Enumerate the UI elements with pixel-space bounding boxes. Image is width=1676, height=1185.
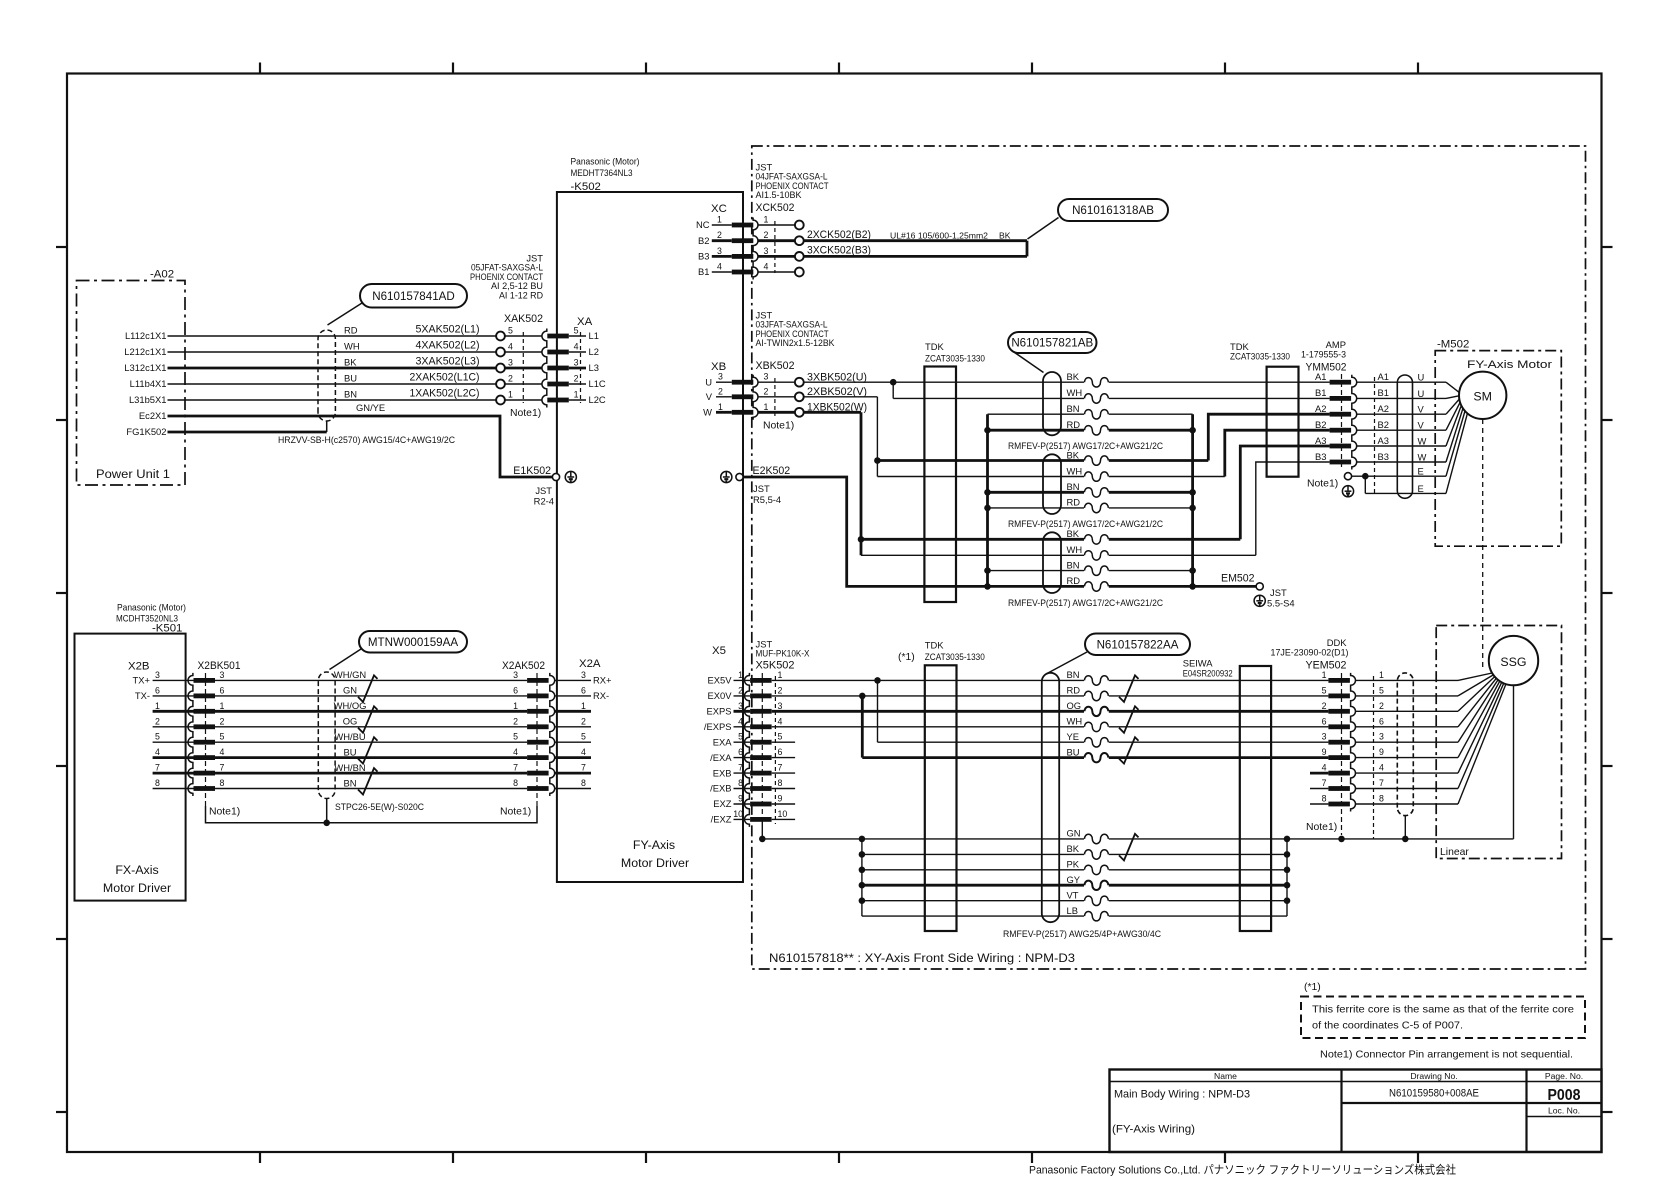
- wire WH row /EXPS: [772, 726, 1329, 728]
- svg-text:7: 7: [581, 763, 586, 773]
- svg-text:1: 1: [581, 701, 586, 711]
- svg-text:4: 4: [513, 747, 518, 757]
- svg-text:Linear: Linear: [1440, 847, 1469, 858]
- wire E2K502 earth run: [743, 477, 987, 586]
- svg-text:GN: GN: [343, 685, 357, 696]
- svg-text:Note1): Note1): [1306, 822, 1337, 833]
- svg-text:3: 3: [764, 372, 769, 382]
- svg-text:B3: B3: [1378, 451, 1389, 462]
- wire RD row continue: [862, 695, 1328, 697]
- svg-text:Page. No.: Page. No.: [1545, 1071, 1583, 1081]
- svg-text:VT: VT: [1067, 890, 1079, 901]
- svg-text:2XAK502(L1C): 2XAK502(L1C): [410, 372, 480, 384]
- node EM502 junction: [1189, 583, 1196, 590]
- svg-text:5: 5: [1379, 685, 1384, 695]
- svg-text:4: 4: [1322, 763, 1327, 773]
- XA pin dashed column: [580, 332, 582, 403]
- XC pin labels NC B2 B3 B1: [696, 219, 710, 277]
- balloon pointer: [1011, 350, 1044, 373]
- encoder squiggles upper: [1084, 676, 1109, 763]
- X5 pin labels: [704, 675, 732, 825]
- YMM502 pin labels A1-B3 left: [1315, 371, 1326, 462]
- svg-text:1-179555-3: 1-179555-3: [1301, 349, 1346, 360]
- wire VT row: [862, 900, 1287, 902]
- title block row line: [1342, 1102, 1602, 1104]
- scale signal ground drop: [1513, 685, 1515, 839]
- coupling dashed line SM to SSG: [1482, 419, 1484, 668]
- svg-text:EXA: EXA: [713, 736, 733, 747]
- svg-text:PK: PK: [1067, 859, 1080, 870]
- node drain bus right: [1189, 505, 1196, 512]
- svg-text:Panasonic (Motor): Panasonic (Motor): [117, 602, 186, 613]
- svg-text:N610157822AA: N610157822AA: [1097, 638, 1179, 651]
- encoder cable capsule: [1042, 673, 1059, 922]
- YEM502 pin dashed column: [1373, 676, 1375, 839]
- wire BN3: [988, 570, 1193, 572]
- svg-text:B2: B2: [1315, 419, 1326, 430]
- svg-text:1: 1: [1322, 670, 1327, 680]
- core color labels group3: [1067, 528, 1083, 586]
- svg-text:4: 4: [581, 747, 586, 757]
- svg-text:1: 1: [508, 390, 513, 400]
- svg-text:7: 7: [1379, 778, 1384, 788]
- wire V vertical: [876, 397, 878, 477]
- svg-text:GN: GN: [1067, 828, 1081, 839]
- X5K502 dashed column through bars: [761, 673, 763, 820]
- svg-text:8: 8: [778, 778, 783, 788]
- scale symbol SSG: [1489, 636, 1538, 685]
- svg-text:L212c1X1: L212c1X1: [124, 346, 166, 357]
- svg-text:SM: SM: [1473, 390, 1492, 404]
- wire BN2 thick: [988, 491, 1193, 494]
- XA connector scallop: [542, 329, 547, 408]
- svg-text:Note1): Note1): [500, 807, 531, 818]
- YEM502 scallop: [1351, 673, 1356, 812]
- svg-text:P008: P008: [1548, 1087, 1581, 1104]
- FY-Axis Motor Driver box K502: [557, 192, 743, 882]
- svg-text:EM502: EM502: [1221, 573, 1255, 585]
- svg-text:EXZ: EXZ: [713, 798, 732, 809]
- svg-text:2: 2: [1322, 701, 1327, 711]
- svg-text:L312c1X1: L312c1X1: [124, 362, 166, 373]
- encoder core labels lower: [1067, 828, 1081, 916]
- wires YEM502 to SSG: [1356, 680, 1459, 804]
- svg-text:/EXPS: /EXPS: [704, 721, 732, 732]
- svg-text:2: 2: [508, 374, 513, 384]
- wire EX5V branch vertical: [877, 680, 879, 742]
- svg-text:/EXA: /EXA: [710, 752, 732, 763]
- svg-text:WH: WH: [1067, 465, 1083, 476]
- svg-text:5: 5: [220, 732, 225, 742]
- node drain bus right: [1189, 567, 1196, 574]
- svg-text:Note1): Note1): [209, 807, 240, 818]
- svg-text:RMFEV-P(2517) AWG25/4P+AWG30/4: RMFEV-P(2517) AWG25/4P+AWG30/4C: [1003, 928, 1161, 939]
- wire YE row: [878, 741, 1329, 743]
- svg-text:B2: B2: [698, 235, 709, 246]
- earth terminal E2K502: [721, 471, 732, 482]
- svg-text:5: 5: [155, 732, 160, 742]
- wire RD1 thick: [988, 429, 1193, 432]
- node E junction: [1362, 473, 1369, 480]
- core color labels group1: [1067, 371, 1083, 430]
- svg-text:RD: RD: [344, 325, 358, 336]
- svg-text:BU: BU: [1067, 746, 1080, 757]
- wire E2 row: [1365, 492, 1446, 494]
- svg-text:3: 3: [574, 358, 579, 368]
- wire crossover B3: [1256, 462, 1330, 555]
- svg-text:Note1): Note1): [510, 408, 541, 419]
- svg-text:WH: WH: [1067, 716, 1083, 727]
- svg-text:2XCK502(B2): 2XCK502(B2): [807, 229, 871, 241]
- XBK502 pin dashed column: [774, 378, 776, 416]
- XA contact bars: [547, 334, 569, 403]
- svg-text:Note1): Note1): [1307, 479, 1338, 490]
- svg-text:Panasonic Factory Solutions Co: Panasonic Factory Solutions Co.,Ltd. パナソ…: [1029, 1163, 1456, 1177]
- svg-text:A3: A3: [1378, 435, 1389, 446]
- svg-text:X2A: X2A: [579, 658, 601, 670]
- frame zone ticks left/right: [56, 247, 1613, 1112]
- svg-text:BK: BK: [999, 231, 1011, 241]
- X2AK502 dashed column: [536, 673, 538, 806]
- node RD2 left: [984, 505, 991, 512]
- svg-text:FY-Axis: FY-Axis: [633, 838, 675, 852]
- svg-text:L2: L2: [589, 346, 599, 357]
- svg-text:Ec2X1: Ec2X1: [139, 410, 167, 421]
- svg-text:1: 1: [574, 390, 579, 400]
- motor lead labels U U V V W W E E: [1418, 372, 1427, 494]
- node bus left: [859, 851, 866, 858]
- motor fan wires: [1446, 382, 1467, 493]
- YEM502 stub pins 4 7 8: [1310, 772, 1328, 775]
- svg-text:7: 7: [513, 763, 518, 773]
- XCK502 pin dashed column: [774, 221, 776, 273]
- svg-text:XC: XC: [711, 203, 727, 215]
- wire EM502 run: [1193, 585, 1257, 588]
- node RD3 E2K junction: [984, 583, 991, 590]
- balloon pointer: [328, 303, 363, 325]
- svg-text:9: 9: [1379, 747, 1384, 757]
- svg-text:BU: BU: [344, 373, 357, 384]
- svg-text:3: 3: [764, 246, 769, 256]
- X2B contact bars: [194, 678, 216, 791]
- svg-text:Power Unit 1: Power Unit 1: [96, 467, 170, 481]
- svg-text:-A02: -A02: [150, 269, 174, 281]
- svg-text:LB: LB: [1067, 905, 1078, 916]
- svg-text:X5K502: X5K502: [756, 660, 795, 672]
- svg-text:W: W: [1418, 452, 1427, 463]
- X2 cable color labels: [334, 669, 367, 788]
- node BN2 left: [984, 489, 991, 496]
- svg-text:GN/YE: GN/YE: [356, 402, 385, 413]
- wire GN row: [762, 838, 1513, 840]
- shield bus right: [1286, 839, 1288, 916]
- X5K502 contact bars: [750, 678, 772, 822]
- wire BK2 thick: [877, 459, 1208, 462]
- svg-text:L1: L1: [589, 330, 599, 341]
- svg-text:8: 8: [155, 778, 160, 788]
- svg-text:EXPS: EXPS: [706, 706, 731, 717]
- svg-text:RX+: RX+: [593, 675, 612, 686]
- svg-text:N610157841AD: N610157841AD: [372, 290, 455, 303]
- wire U branch vertical: [892, 382, 894, 398]
- svg-text:2: 2: [220, 716, 225, 726]
- X5 unused pin stubs 5-10: [772, 742, 795, 819]
- svg-text:1XAK502(L2C): 1XAK502(L2C): [410, 388, 480, 400]
- svg-text:B1: B1: [698, 266, 709, 277]
- svg-text:RX-: RX-: [593, 690, 609, 701]
- svg-text:2: 2: [574, 374, 579, 384]
- svg-text:V: V: [1418, 420, 1425, 431]
- svg-text:A2: A2: [1315, 403, 1326, 414]
- wire E2 drop: [1364, 476, 1366, 493]
- balloon MTNW000159AA: [359, 631, 467, 653]
- svg-text:RD: RD: [1067, 575, 1081, 586]
- X2BK501 pin numbers: [220, 670, 225, 788]
- earth symbol EM502: [1254, 595, 1265, 606]
- svg-text:5: 5: [513, 732, 518, 742]
- core color labels group2: [1067, 449, 1083, 507]
- svg-text:1: 1: [155, 701, 160, 711]
- wire RD2: [988, 507, 1193, 509]
- encoder twisted pair slash lower: [1119, 834, 1139, 861]
- wire L2C: [168, 399, 497, 401]
- svg-text:-M502: -M502: [1437, 339, 1469, 351]
- svg-text:BU: BU: [343, 746, 356, 757]
- svg-text:3XAK502(L3): 3XAK502(L3): [416, 356, 480, 368]
- svg-text:EX5V: EX5V: [708, 675, 733, 686]
- svg-text:3: 3: [1379, 732, 1384, 742]
- svg-text:WH/BN: WH/BN: [334, 762, 365, 773]
- balloon pointer: [1028, 218, 1059, 240]
- wire W phase thick: [803, 411, 861, 414]
- wire OG row EXPS thick: [772, 710, 1329, 713]
- FY-Axis Motor box -M502: [1435, 351, 1561, 547]
- svg-text:-K502: -K502: [571, 181, 601, 193]
- svg-text:1: 1: [1379, 670, 1384, 680]
- svg-text:5XAK502(L1): 5XAK502(L1): [416, 324, 480, 336]
- svg-text:A3: A3: [1315, 435, 1326, 446]
- svg-text:ZCAT3035-1330: ZCAT3035-1330: [925, 353, 985, 364]
- svg-text:XAK502: XAK502: [504, 313, 543, 325]
- JST spec text XCK502: [756, 162, 829, 201]
- svg-text:4: 4: [764, 262, 769, 272]
- svg-text:4: 4: [717, 262, 722, 272]
- wire RD row EX0V: [772, 695, 863, 697]
- X5K502 pin numbers right: [778, 670, 788, 819]
- svg-text:1: 1: [513, 701, 518, 711]
- svg-text:A2: A2: [1378, 403, 1389, 414]
- XCK502 ring terminals: [795, 221, 804, 277]
- svg-text:4XAK502(L2): 4XAK502(L2): [416, 340, 480, 352]
- svg-text:-K501: -K501: [152, 623, 182, 635]
- svg-text:JST: JST: [753, 483, 770, 494]
- svg-text:6: 6: [738, 747, 743, 757]
- svg-text:Motor Driver: Motor Driver: [621, 856, 689, 870]
- svg-text:BK: BK: [344, 357, 357, 368]
- svg-text:Note1): Note1): [763, 421, 794, 432]
- svg-text:RD: RD: [1067, 685, 1081, 696]
- svg-text:4: 4: [155, 747, 160, 757]
- svg-text:B3: B3: [698, 251, 709, 262]
- svg-text:ZCAT3035-1330: ZCAT3035-1330: [925, 651, 985, 662]
- svg-text:5: 5: [738, 732, 743, 742]
- svg-text:BN: BN: [1067, 403, 1080, 414]
- Power Unit 1 box -A02: [77, 281, 186, 486]
- svg-text:6: 6: [581, 685, 586, 695]
- svg-text:3XCK502(B3): 3XCK502(B3): [807, 245, 871, 257]
- svg-text:L112c1X1: L112c1X1: [125, 330, 167, 341]
- power unit signal labels: [124, 330, 166, 437]
- svg-text:WH: WH: [344, 341, 360, 352]
- wire L2 phase: [168, 351, 497, 353]
- svg-text:6: 6: [513, 685, 518, 695]
- svg-text:R2-4: R2-4: [534, 496, 554, 507]
- svg-text:TDK: TDK: [925, 640, 944, 651]
- svg-text:V: V: [1418, 404, 1425, 415]
- svg-text:6: 6: [1322, 716, 1327, 726]
- svg-text:L11b4X1: L11b4X1: [130, 378, 167, 389]
- svg-text:X2BK501: X2BK501: [198, 660, 241, 672]
- XA pin numbers: [574, 326, 579, 400]
- XAK502 pin numbers 5-1: [508, 326, 513, 400]
- drain bus right: [1191, 414, 1194, 586]
- X5K502 shield drop: [761, 820, 763, 839]
- svg-text:2: 2: [738, 685, 743, 695]
- svg-text:BN: BN: [1067, 669, 1080, 680]
- wire BK3 thick: [861, 538, 1240, 541]
- svg-text:L1C: L1C: [589, 378, 606, 389]
- svg-text:L3: L3: [589, 362, 599, 373]
- svg-text:BN: BN: [1067, 481, 1080, 492]
- svg-text:3: 3: [717, 246, 722, 256]
- svg-text:5: 5: [1322, 685, 1327, 695]
- node bus right: [1284, 897, 1291, 904]
- svg-text:3: 3: [513, 670, 518, 680]
- svg-text:E04SR200932: E04SR200932: [1183, 668, 1233, 679]
- svg-text:R5,5-4: R5,5-4: [753, 494, 781, 505]
- X2A pin numbers: [581, 670, 586, 788]
- svg-text:B2: B2: [1378, 419, 1389, 430]
- svg-text:AI 1-12 RD: AI 1-12 RD: [499, 289, 543, 300]
- cable capsule RMFEV no2: [1043, 454, 1061, 514]
- node bus right: [1284, 836, 1291, 843]
- XB pin stubs: [716, 382, 732, 412]
- XC pin stubs: [712, 225, 732, 272]
- XCK502 pin numbers right: [764, 215, 769, 272]
- svg-text:UL#16 105/600-1,25mm2: UL#16 105/600-1,25mm2: [890, 231, 988, 241]
- SSG fan wires: [1458, 673, 1506, 804]
- encoder twisted pair slashes upper: [1119, 675, 1139, 702]
- svg-text:X5: X5: [712, 645, 726, 657]
- wire L1C: [168, 383, 497, 385]
- wire shield to E junction: [1352, 475, 1366, 477]
- XC pin numbers 1-4: [717, 215, 722, 272]
- svg-text:OG: OG: [1067, 700, 1082, 711]
- svg-text:Main Body Wiring : NPM-D3: Main Body Wiring : NPM-D3: [1114, 1089, 1250, 1101]
- svg-text:3: 3: [581, 670, 586, 680]
- X5 pin numbers left: [733, 670, 743, 819]
- svg-text:E: E: [1418, 483, 1424, 494]
- power cable sheath capsule: [318, 330, 335, 421]
- svg-text:2: 2: [513, 716, 518, 726]
- node RD1 left: [984, 427, 991, 434]
- node YEM shield: [1338, 836, 1345, 843]
- svg-text:8: 8: [1322, 794, 1327, 804]
- wire L3 phase thick: [168, 367, 497, 370]
- svg-text:FY-Axis Motor: FY-Axis Motor: [1467, 359, 1552, 371]
- svg-text:XCK502: XCK502: [756, 202, 795, 214]
- wire BU row thick: [862, 756, 1328, 759]
- svg-text:B1: B1: [1315, 387, 1326, 398]
- svg-text:RMFEV-P(2517) AWG17/2C+AWG21/2: RMFEV-P(2517) AWG17/2C+AWG21/2C: [1008, 440, 1163, 451]
- X2A pin stubs: [555, 680, 591, 788]
- svg-text:6: 6: [1379, 716, 1384, 726]
- svg-text:4: 4: [508, 342, 513, 352]
- X2 cable capsule dashed: [318, 672, 335, 798]
- cable capsule RMFEV no3: [1043, 532, 1061, 593]
- svg-text:2: 2: [581, 716, 586, 726]
- XAK502 pin dashed column: [522, 332, 524, 403]
- XB pin labels U V W: [703, 376, 713, 417]
- svg-text:L31b5X1: L31b5X1: [129, 394, 167, 405]
- ferrite core SEIWA: [1240, 666, 1271, 931]
- motor symbol SM: [1459, 372, 1506, 419]
- power cable shield tail: [326, 421, 328, 432]
- balloon N610157821AB: [1008, 332, 1097, 353]
- YMM502 contact bars: [1330, 380, 1352, 465]
- node drain bus right: [1189, 489, 1196, 496]
- svg-text:7: 7: [778, 763, 783, 773]
- svg-text:TX+: TX+: [133, 675, 151, 686]
- svg-text:3: 3: [155, 670, 160, 680]
- svg-text:L2C: L2C: [589, 394, 606, 405]
- wires X2B to X2A: [215, 680, 527, 788]
- svg-text:BN: BN: [343, 777, 356, 788]
- YMM502 pin labels right: [1378, 371, 1389, 462]
- wire 2XCK502(B2) brake: [803, 239, 1027, 242]
- svg-text:TX-: TX-: [135, 690, 150, 701]
- wire W vertical thick: [860, 412, 863, 555]
- ferrite note dashed box: [1301, 997, 1585, 1039]
- svg-text:5: 5: [508, 326, 513, 336]
- title block outline: [1110, 1070, 1602, 1153]
- wire L1 phase: [168, 335, 497, 337]
- balloon N610157822AA: [1085, 634, 1190, 656]
- svg-text:(FY-Axis Wiring): (FY-Axis Wiring): [1112, 1124, 1195, 1136]
- wire WH1 to B1: [893, 397, 1329, 399]
- drain bus left: [986, 414, 989, 586]
- svg-text:8: 8: [738, 778, 743, 788]
- svg-text:(*1): (*1): [1304, 982, 1321, 993]
- title block loc line: [1527, 1116, 1602, 1118]
- svg-text:4: 4: [778, 716, 783, 726]
- svg-text:1: 1: [718, 402, 723, 412]
- node U branch: [890, 379, 897, 386]
- svg-text:N610157821AB: N610157821AB: [1011, 337, 1093, 350]
- wire EX0V branch vertical: [861, 696, 864, 758]
- XCK502 wires to rings: [758, 225, 795, 272]
- svg-text:Note1) Connector Pin arrangeme: Note1) Connector Pin arrangement is not …: [1320, 1050, 1573, 1061]
- node EX5V branch: [874, 677, 881, 684]
- cable core color labels RD WH BK BU BN: [344, 325, 360, 400]
- node W to BK3: [858, 536, 865, 543]
- wire BN row EX5V: [772, 679, 1329, 681]
- earth terminal E1K502: [552, 473, 559, 480]
- svg-text:17JE-23090-02(D1): 17JE-23090-02(D1): [1271, 647, 1349, 658]
- X2AK502 scallop: [550, 673, 555, 796]
- svg-text:1: 1: [220, 701, 225, 711]
- svg-text:BK: BK: [1067, 528, 1080, 539]
